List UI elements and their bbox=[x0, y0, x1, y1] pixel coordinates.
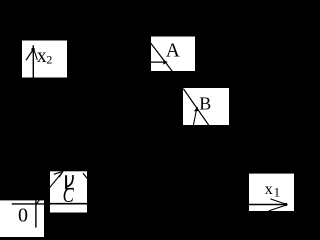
x1 axis main segment bbox=[249, 204, 285, 206]
x1 axis arrow upper barb bbox=[270, 199, 285, 204]
x2 axis segment at origin (vertical) bbox=[35, 200, 37, 227]
label box 0 bbox=[0, 200, 44, 237]
x1 axis arrow tip blob bbox=[284, 203, 288, 206]
svg-text:1: 1 bbox=[274, 184, 281, 199]
glyph above C (mu-like) : stem bbox=[65, 175, 67, 189]
label C (italic) bbox=[63, 184, 74, 207]
arrow toward A: filled head bbox=[163, 60, 167, 65]
x1 axis segment at origin bbox=[12, 203, 44, 205]
trajectory through B bbox=[183, 89, 209, 126]
x2 axis arrowhead left barb bbox=[26, 51, 33, 61]
x2 axis arrowhead right barb bbox=[34, 51, 37, 60]
trajectory through A bbox=[151, 43, 173, 71]
x2 axis shaft bbox=[32, 45, 34, 77]
glyph above C : bottom bar bbox=[65, 188, 73, 190]
parallel trajectory crossing C box corner bbox=[83, 173, 87, 178]
label box A bbox=[151, 37, 195, 72]
arrow toward B: filled head bbox=[194, 107, 199, 112]
label box x1 bbox=[249, 174, 294, 211]
svg-text:A: A bbox=[166, 40, 180, 61]
trajectory through C (from origin area up-right) bbox=[36, 171, 63, 204]
svg-text:2: 2 bbox=[46, 53, 52, 67]
arrow near C: barb 1 bbox=[54, 171, 63, 174]
x1 axis segment through C box bbox=[50, 203, 87, 205]
label box B bbox=[183, 88, 229, 125]
arrow toward A: shaft bbox=[151, 61, 164, 63]
svg-text:B: B bbox=[199, 94, 211, 114]
svg-text:x: x bbox=[37, 46, 47, 67]
label box x2 bbox=[22, 41, 67, 78]
x1 axis arrow lower barb bbox=[269, 205, 285, 210]
arrow toward B: shaft bbox=[193, 111, 196, 126]
label box C bbox=[50, 171, 87, 212]
glyph above C : bowl bbox=[67, 175, 73, 186]
svg-text:x: x bbox=[265, 181, 273, 198]
x2 axis arrowhead blob bbox=[31, 48, 34, 52]
arrow near C: barb 2 bbox=[59, 172, 62, 178]
svg-text:0: 0 bbox=[18, 205, 28, 227]
svg-text:C: C bbox=[63, 184, 74, 207]
